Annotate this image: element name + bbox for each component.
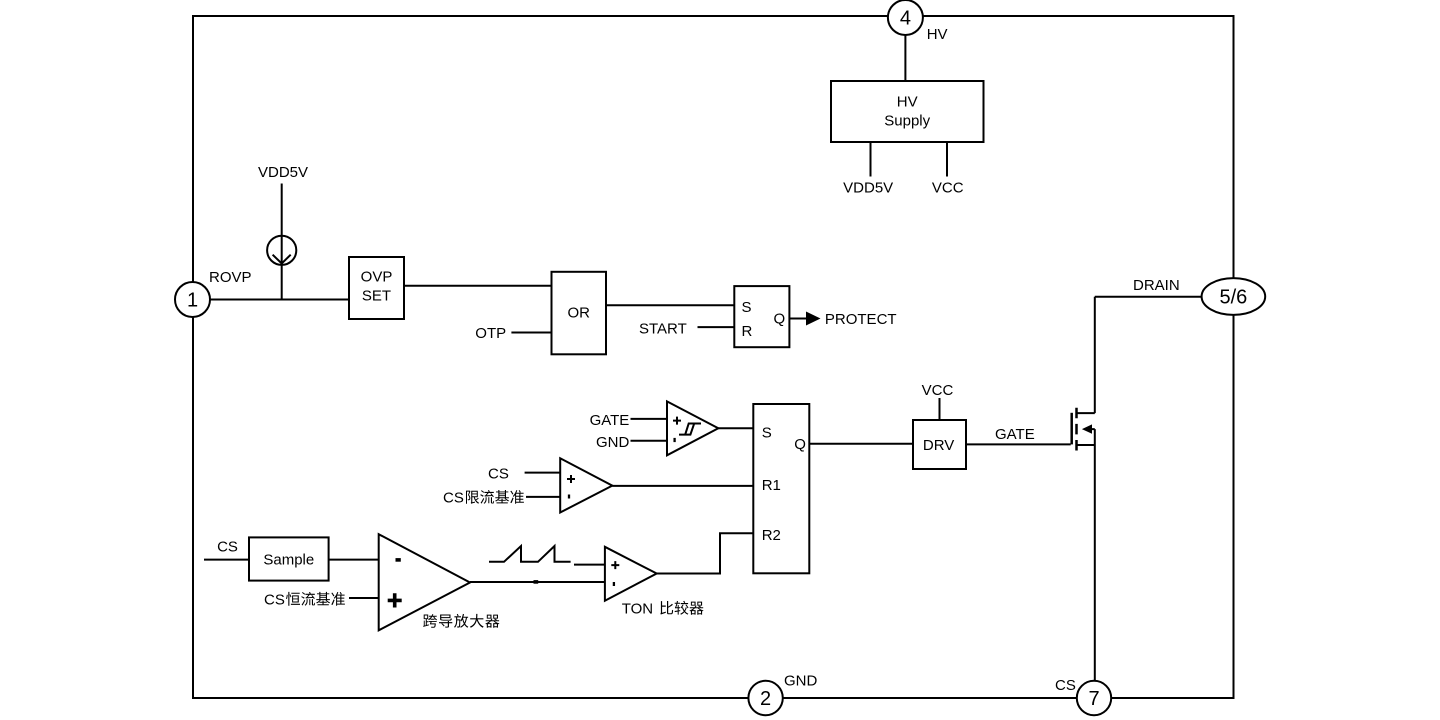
label TON 比较器: [622, 601, 704, 618]
svg-text:OVP: OVP: [361, 269, 393, 286]
svg-text:5/6: 5/6: [1219, 287, 1247, 309]
latch U6 S/R1/R2: [753, 404, 809, 573]
pin 4 (HV): [888, 0, 923, 35]
svg-text:PROTECT: PROTECT: [825, 311, 897, 328]
wire VCC to DRV: [939, 398, 941, 420]
sawtooth ramp waveform: [489, 546, 571, 562]
pin 2 (GND): [748, 681, 782, 715]
svg-text:S: S: [762, 424, 772, 441]
wire Q to PROTECT with arrow: [789, 312, 820, 326]
wire CS to Sample: [204, 559, 249, 561]
wire TON out to latch R2: [657, 533, 754, 573]
svg-text:OR: OR: [567, 305, 590, 322]
wire OR to SR latch S: [606, 304, 734, 306]
block OVP SET: [349, 257, 404, 319]
wire gm amp out to TON comparator - input: [470, 581, 605, 583]
pin 5/6 (DRAIN): [1202, 278, 1266, 315]
pin 7 (CS): [1077, 681, 1111, 715]
wire OTP to OR: [511, 332, 551, 334]
transistor Q1 power NMOS: [1072, 297, 1095, 681]
wire GATE to schmitt: [631, 418, 668, 420]
svg-text:DRAIN: DRAIN: [1133, 277, 1180, 294]
current source I1: [267, 236, 296, 265]
svg-text:CS: CS: [488, 466, 509, 483]
wire ROVP pin1 to OVP SET: [210, 299, 349, 301]
svg-text:TON: TON: [622, 601, 653, 618]
svg-text:OTP: OTP: [475, 325, 506, 342]
IC boundary frame: [193, 16, 1234, 698]
svg-text:SET: SET: [362, 288, 391, 305]
wire sawtooth to TON comparator + input: [574, 564, 605, 566]
svg-text:ROVP: ROVP: [209, 269, 252, 286]
svg-text:GATE: GATE: [995, 426, 1035, 443]
wire Sample to gm amp - input: [329, 559, 379, 561]
block U7 DRV: [913, 420, 966, 469]
svg-text:GND: GND: [596, 434, 630, 451]
svg-text:2: 2: [760, 688, 771, 710]
svg-text:S: S: [742, 299, 752, 316]
wire pin4 to HV Supply: [904, 35, 906, 81]
svg-text:VDD5V: VDD5V: [258, 164, 308, 181]
wire CS to comparator: [525, 472, 561, 474]
wire junction: [534, 580, 539, 584]
wire CS限流基准 to comparator: [526, 496, 560, 498]
svg-text:R2: R2: [762, 527, 781, 544]
svg-text:Q: Q: [794, 436, 806, 453]
wire START to SR latch R: [698, 326, 735, 328]
svg-text:Sample: Sample: [263, 552, 314, 569]
pin 1 (ROVP): [175, 282, 210, 317]
svg-text:GND: GND: [784, 673, 818, 690]
latch U3 SR (protect): [734, 286, 789, 347]
svg-text:4: 4: [900, 8, 911, 30]
op-amp U9 transconductance amplifier: [379, 534, 470, 630]
wire DRV to gate: [966, 443, 1071, 445]
svg-text:HV: HV: [927, 26, 948, 43]
net label CS恒流基准: [264, 592, 345, 609]
svg-text:VDD5V: VDD5V: [843, 180, 893, 197]
gate U2 OR: [552, 272, 607, 355]
block U8 Sample: [249, 537, 329, 580]
svg-text:VCC: VCC: [922, 382, 954, 399]
svg-text:DRV: DRV: [923, 437, 954, 454]
svg-text:VCC: VCC: [932, 180, 964, 197]
svg-text:CS: CS: [443, 490, 464, 507]
wire HV Supply VDD5V output stub: [870, 142, 872, 177]
comparator U4 schmitt trigger: [667, 401, 718, 455]
block U1 HV Supply: [831, 81, 984, 142]
svg-text:R: R: [742, 323, 753, 340]
svg-text:GATE: GATE: [590, 412, 630, 429]
comparator U10 TON: [605, 547, 657, 601]
wire OVP SET to OR: [404, 285, 552, 287]
wire GND to schmitt: [631, 440, 668, 442]
svg-text:START: START: [639, 321, 687, 338]
wire comparator out to latch R1: [612, 485, 753, 487]
wire VDD5V to ROVP node: [281, 184, 283, 300]
svg-text:CS: CS: [217, 539, 238, 556]
wire drain to pin 5/6: [1095, 296, 1202, 298]
svg-text:CS: CS: [264, 592, 285, 609]
label 跨导放大器: [423, 614, 499, 628]
wire schmitt out to latch S: [718, 427, 753, 429]
net label CS限流基准: [443, 490, 524, 507]
wire HV Supply VCC output stub: [946, 142, 948, 177]
wire CS恒流基准 to gm amp + input: [349, 597, 379, 599]
svg-text:7: 7: [1088, 688, 1099, 710]
comparator U5 CS current limit: [560, 458, 612, 512]
svg-text:1: 1: [187, 290, 198, 312]
svg-text:R1: R1: [762, 477, 781, 494]
svg-text:HV: HV: [897, 94, 918, 111]
svg-text:Q: Q: [774, 311, 786, 328]
wire latch Q to DRV: [809, 443, 913, 445]
svg-text:Supply: Supply: [884, 113, 930, 130]
svg-text:CS: CS: [1055, 677, 1076, 694]
